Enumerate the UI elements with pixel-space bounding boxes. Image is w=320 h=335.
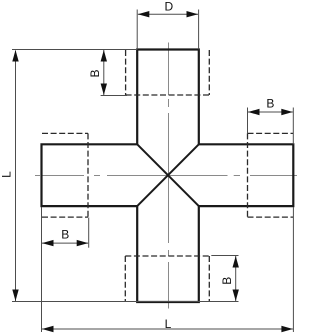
extension line right of B bottom-left xyxy=(88,218,90,248)
extension line top of B bottom-right xyxy=(211,255,238,257)
junction diagonal top-right to bottom-left xyxy=(137,144,199,206)
svg-text:B: B xyxy=(88,69,102,77)
dimension L left xyxy=(12,50,18,301)
dimension B top-left xyxy=(101,50,107,95)
svg-text:B: B xyxy=(61,227,69,241)
dimension B bottom-left xyxy=(42,240,88,246)
dimension B bottom-right xyxy=(233,256,239,301)
svg-text:B: B xyxy=(266,97,274,111)
cross fitting body outline xyxy=(42,50,294,303)
junction diagonal top-left to bottom-right xyxy=(137,144,199,206)
right socket hidden outline xyxy=(248,133,294,217)
bottom socket hidden outline xyxy=(125,256,209,302)
label B bottom-left xyxy=(61,227,69,241)
label B top-left xyxy=(88,69,102,77)
horizontal centerline xyxy=(35,175,297,177)
dimension B right xyxy=(248,109,293,115)
label B right xyxy=(266,97,274,111)
extension line right for L bottom xyxy=(292,207,294,332)
dimension D top xyxy=(138,11,198,17)
label L bottom xyxy=(165,317,172,331)
svg-text:D: D xyxy=(164,0,173,14)
extension lines for D xyxy=(137,10,198,50)
label B bottom-right xyxy=(220,277,234,285)
left socket hidden outline xyxy=(42,133,88,217)
label L left xyxy=(0,171,14,178)
svg-text:B: B xyxy=(220,277,234,285)
extension lines for B right xyxy=(248,108,294,145)
top socket hidden outline xyxy=(126,50,210,95)
extension line bottom of B top-left xyxy=(101,95,127,97)
dimension L bottom xyxy=(42,326,293,332)
vertical centerline xyxy=(168,43,170,309)
svg-text:L: L xyxy=(165,317,172,331)
extension line top (for L left and B top-left) xyxy=(12,49,137,51)
extension line left of B bottom-left and L bottom xyxy=(41,207,43,332)
extension line bottom (for L left and B bottom-right) xyxy=(12,301,239,303)
svg-text:L: L xyxy=(0,171,14,178)
label D xyxy=(164,0,173,14)
